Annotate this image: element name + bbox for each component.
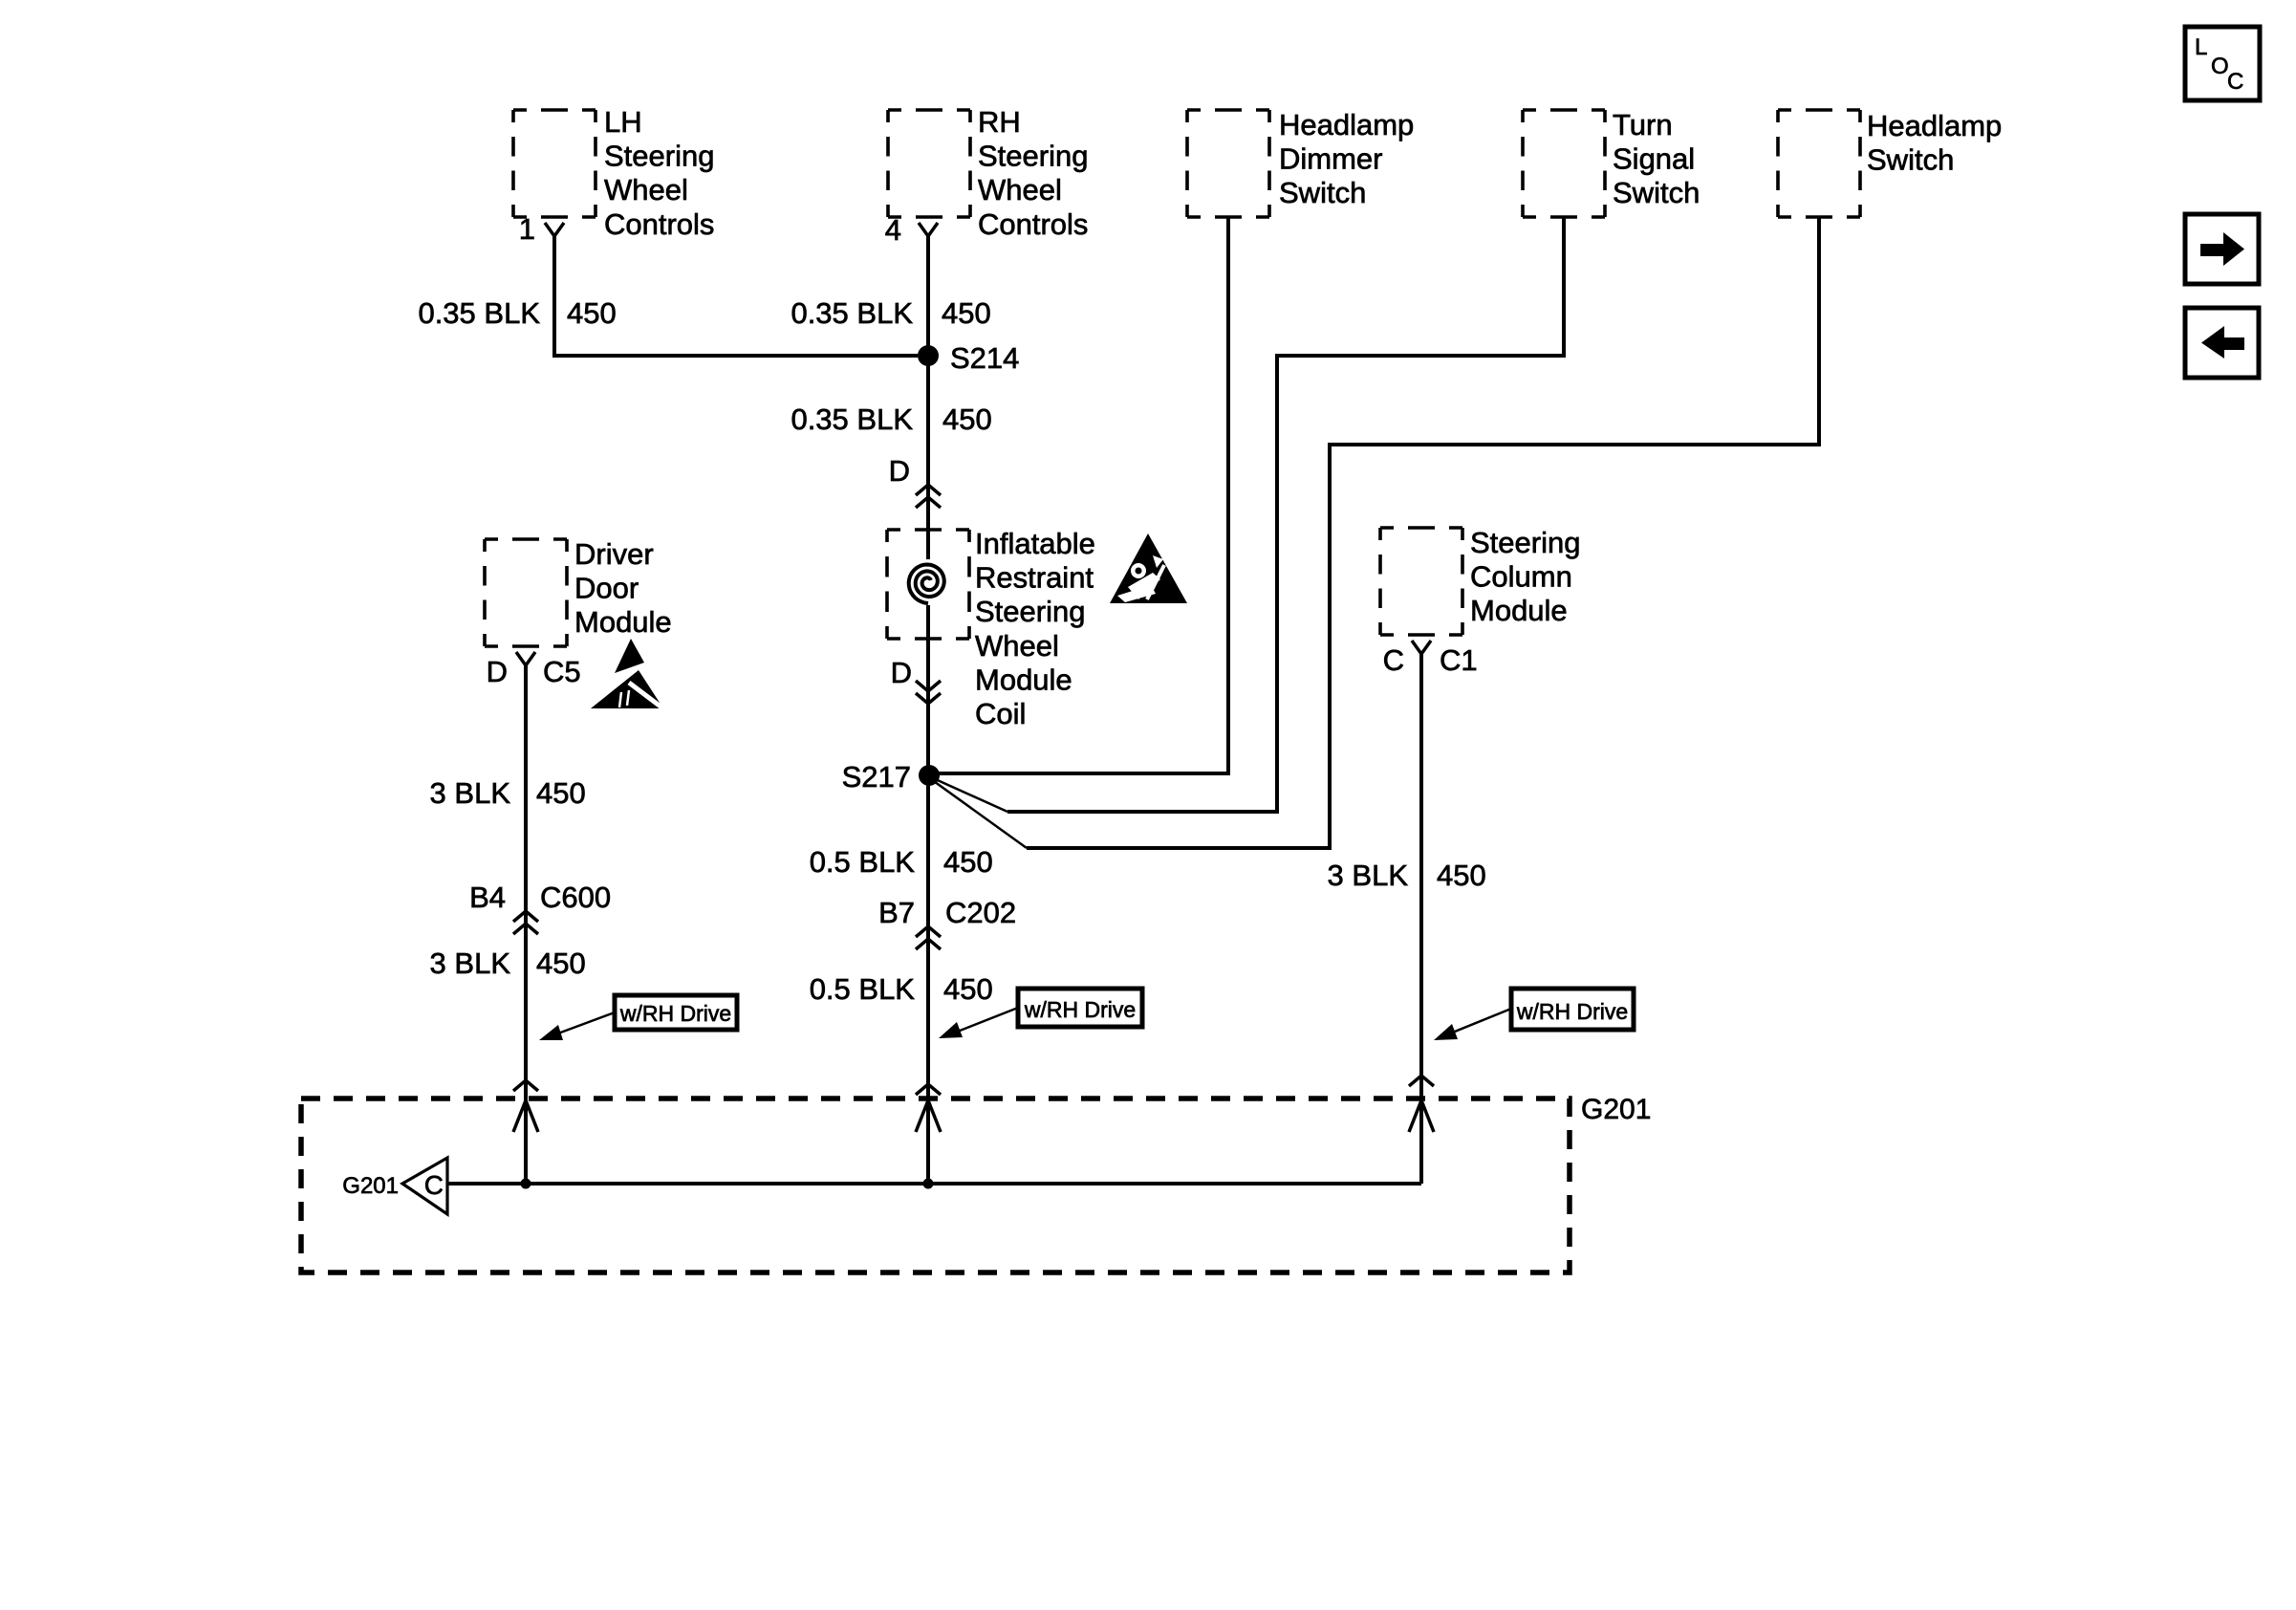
svg-text:Column: Column [1470, 560, 1572, 594]
wire label 450 (above C600) [536, 776, 586, 810]
wire label 0.35 BLK (RH upper) [791, 296, 913, 330]
label connector C202 [945, 896, 1016, 929]
wire 0.35 BLK 450 from RH pin 4 to splice S214 [926, 236, 930, 356]
SIR air bag warning triangle symbol [1110, 533, 1187, 603]
svg-text:450: 450 [536, 776, 586, 810]
wire label 450 (left) [567, 296, 617, 330]
label: Headlamp Switch [1867, 109, 2002, 177]
svg-text:Module: Module [574, 605, 672, 639]
label: Headlamp Dimmer Switch [1279, 108, 1414, 209]
wire label 0.5 BLK (below C202) [810, 972, 916, 1006]
connector Y at RH pin 4 [919, 223, 938, 236]
wire label 0.5 BLK (above C202) [810, 845, 916, 879]
svg-text:450: 450 [567, 296, 617, 330]
svg-text:C: C [1383, 643, 1404, 677]
svg-text:B7: B7 [878, 896, 915, 929]
wire 0.35 BLK 450 from S214 to connector D of coil [926, 356, 930, 530]
svg-text:450: 450 [942, 402, 992, 436]
wire label 3 BLK (right) [1328, 859, 1409, 892]
connector Y at Steering Column Module pin C [1412, 641, 1431, 654]
svg-text:3 BLK: 3 BLK [1328, 859, 1409, 892]
label connector C1 [1440, 643, 1478, 677]
wire label 450 (below C600) [536, 946, 586, 980]
ground lead arrow into G201 (middle wire) [916, 1100, 941, 1132]
wire 3 BLK 450 from Steering Column Module to G201 [1419, 654, 1423, 1184]
svg-text:C: C [2227, 69, 2243, 95]
wire label 3 BLK (above C600) [430, 776, 511, 810]
svg-text:1: 1 [519, 212, 535, 246]
label G201 (ground terminal) [342, 1173, 399, 1199]
ground lead arrow into G201 (left wire) [513, 1100, 538, 1132]
wire from Headlamp Dimmer Switch to S217 [929, 217, 1228, 773]
svg-text:O: O [2211, 54, 2229, 79]
diagonal wire joining Headlamp Switch branch to S217 [931, 779, 1027, 848]
svg-text:Driver: Driver [574, 537, 654, 571]
label connector C5 [543, 655, 581, 688]
component box: Turn Signal Switch (dashed) [1523, 110, 1605, 217]
callout w/RH Drive (middle) [939, 989, 1142, 1038]
svg-text:Headlamp: Headlamp [1279, 108, 1414, 141]
wire label 450 (RH upper) [942, 296, 991, 330]
in-line connector C600 chevrons [513, 911, 538, 934]
splice S217 junction dot [919, 765, 940, 786]
svg-text:Turn: Turn [1613, 108, 1673, 141]
svg-text:Headlamp: Headlamp [1867, 109, 2002, 142]
svg-text:450: 450 [943, 972, 993, 1006]
component box: Steering Column Module (dashed) [1380, 528, 1462, 635]
svg-text:G201: G201 [1581, 1094, 1651, 1125]
svg-text:C: C [424, 1170, 444, 1200]
wire label 0.35 BLK (left) [418, 296, 540, 330]
svg-text:Steering: Steering [978, 140, 1088, 173]
svg-text:3 BLK: 3 BLK [430, 776, 511, 810]
svg-text:Coil: Coil [975, 697, 1026, 730]
in-line connector chevrons below coil box (pointing down) [916, 681, 941, 704]
in-line connector chevrons above coil box [916, 485, 941, 508]
previous page arrow box [2185, 308, 2259, 378]
wire 0.35 BLK 450 from LH pin 1 to splice S214 [554, 236, 918, 356]
svg-text:450: 450 [942, 296, 991, 330]
svg-text:Switch: Switch [1279, 176, 1366, 209]
svg-text:Signal: Signal [1613, 142, 1695, 176]
svg-text:B4: B4 [469, 881, 506, 914]
diagonal wire joining Turn Signal branch to S217 [931, 777, 1007, 812]
label: Steering Column Module [1470, 526, 1580, 627]
svg-text:C202: C202 [945, 896, 1016, 929]
svg-text:450: 450 [1437, 859, 1486, 892]
svg-text:w/RH Drive: w/RH Drive [1516, 999, 1628, 1024]
pin B7 of connector C202 [878, 896, 915, 929]
pin 1 of LH Steering Wheel Controls [519, 212, 535, 246]
svg-text:D: D [891, 656, 912, 689]
svg-text:Dimmer: Dimmer [1279, 142, 1383, 176]
svg-text:Module: Module [1470, 594, 1568, 627]
svg-text:Wheel: Wheel [978, 173, 1062, 207]
svg-text:D: D [889, 454, 910, 488]
svg-text:L: L [2195, 34, 2207, 60]
component box: Driver Door Module (dashed) [485, 539, 567, 646]
svg-text:RH: RH [978, 105, 1021, 139]
ground splice pack box G201 (dashed) [301, 1099, 1570, 1273]
label S214 [950, 341, 1019, 375]
svg-text:Inflatable: Inflatable [975, 527, 1095, 560]
svg-text:Steering: Steering [604, 140, 714, 173]
label G201 (ground box) [1581, 1094, 1651, 1125]
ground terminal triangle with pin C [402, 1158, 447, 1214]
label connector C600 [540, 881, 611, 914]
svg-text:Switch: Switch [1867, 143, 1954, 177]
label: Inflatable Restraint Steering Wheel Module Coil [975, 527, 1095, 730]
wire through coil box [926, 530, 930, 639]
svg-text:C600: C600 [540, 881, 611, 914]
next page arrow box [2185, 214, 2259, 284]
svg-text:4: 4 [885, 213, 901, 247]
svg-text:Steering: Steering [975, 595, 1085, 628]
svg-text:Wheel: Wheel [975, 629, 1059, 663]
wire label 450 (right) [1437, 859, 1486, 892]
component box: Headlamp Switch (dashed) [1778, 110, 1860, 217]
wire label 3 BLK (below C600) [430, 946, 511, 980]
pin B4 of connector C600 [469, 881, 506, 914]
wire 0.5 BLK 450 from S217 to C202 [926, 775, 930, 927]
callout w/RH Drive (left) [539, 995, 737, 1040]
svg-text:D: D [487, 655, 508, 688]
ground lead arrow into G201 (right wire) [1409, 1100, 1434, 1132]
pin D of Driver Door Module [487, 655, 508, 688]
pin D (out of coil, lower) [891, 656, 912, 689]
connector Y at Driver Door Module pin D [516, 652, 535, 665]
component box: LH Steering Wheel Controls (dashed) [513, 110, 596, 217]
component box: Inflatable Restraint Steering Wheel Module Coil (dashed) [887, 530, 969, 639]
label: Driver Door Module [574, 537, 672, 639]
wire 0.5 BLK 450 from C202 to G201 [926, 927, 930, 1184]
svg-text:C1: C1 [1440, 643, 1478, 677]
ESD sensitive device symbol [591, 639, 668, 712]
svg-text:3 BLK: 3 BLK [430, 946, 511, 980]
wire label 450 (above C202) [943, 845, 993, 879]
svg-text:w/RH Drive: w/RH Drive [1024, 997, 1136, 1022]
pin 4 of RH Steering Wheel Controls [885, 213, 901, 247]
wire 3 BLK 450 from C600 to G201 [524, 912, 528, 1184]
LOC legend box [2185, 27, 2260, 100]
svg-text:0.35 BLK: 0.35 BLK [791, 296, 913, 330]
pin C of Steering Column Module [1383, 643, 1404, 677]
svg-text:S214: S214 [950, 341, 1019, 375]
wire label 0.35 BLK (below S214) [791, 402, 913, 436]
wire label 450 (below S214) [942, 402, 992, 436]
wire from Turn Signal Switch toward S217 [1007, 217, 1564, 812]
wire 3 BLK 450 from Driver Door Module to C600 [524, 665, 528, 912]
wire from Headlamp Switch toward S217 [1027, 216, 1819, 848]
junction dot on ground bus (left wire) [521, 1179, 531, 1189]
svg-text:G201: G201 [342, 1173, 399, 1199]
in-line connector C202 chevrons [916, 926, 941, 949]
svg-text:Module: Module [975, 663, 1072, 696]
wire from coil connector D to splice S217 [926, 639, 930, 775]
connector Y at LH pin 1 [545, 223, 564, 236]
harness chevron above G201 (left wire) [513, 1080, 538, 1091]
ground bus wire inside G201 [447, 1182, 1421, 1186]
svg-text:0.5 BLK: 0.5 BLK [810, 972, 916, 1006]
harness chevron above G201 (right wire) [1409, 1076, 1434, 1086]
svg-text:LH: LH [604, 105, 642, 139]
svg-text:Wheel: Wheel [604, 173, 688, 207]
splice S214 junction dot [918, 345, 939, 366]
label: LH Steering Wheel Controls [604, 105, 714, 241]
svg-text:Restraint: Restraint [975, 561, 1094, 595]
svg-text:Controls: Controls [978, 207, 1088, 241]
label S217 [842, 760, 911, 794]
clockspring coil spiral symbol [905, 559, 951, 605]
svg-text:C5: C5 [543, 655, 581, 688]
svg-text:450: 450 [536, 946, 586, 980]
svg-text:450: 450 [943, 845, 993, 879]
label: RH Steering Wheel Controls [978, 105, 1088, 241]
label: Turn Signal Switch [1613, 108, 1700, 209]
wire label 450 (below C202) [943, 972, 993, 1006]
svg-text:Door: Door [574, 572, 639, 605]
svg-text:w/RH Drive: w/RH Drive [619, 1001, 731, 1026]
pin D (into coil, upper) [889, 454, 910, 488]
svg-text:0.35 BLK: 0.35 BLK [791, 402, 913, 436]
harness chevron above G201 (middle wire) [916, 1084, 941, 1095]
svg-text:Switch: Switch [1613, 176, 1700, 209]
svg-text:S217: S217 [842, 760, 911, 794]
component box: Headlamp Dimmer Switch (dashed) [1187, 110, 1269, 217]
svg-text:0.35 BLK: 0.35 BLK [418, 296, 540, 330]
svg-text:Controls: Controls [604, 207, 714, 241]
component box: RH Steering Wheel Controls (dashed) [888, 110, 970, 217]
callout w/RH Drive (right) [1434, 989, 1634, 1040]
svg-text:Steering: Steering [1470, 526, 1580, 559]
svg-text:0.5 BLK: 0.5 BLK [810, 845, 916, 879]
junction dot on ground bus (middle wire) [923, 1179, 934, 1189]
